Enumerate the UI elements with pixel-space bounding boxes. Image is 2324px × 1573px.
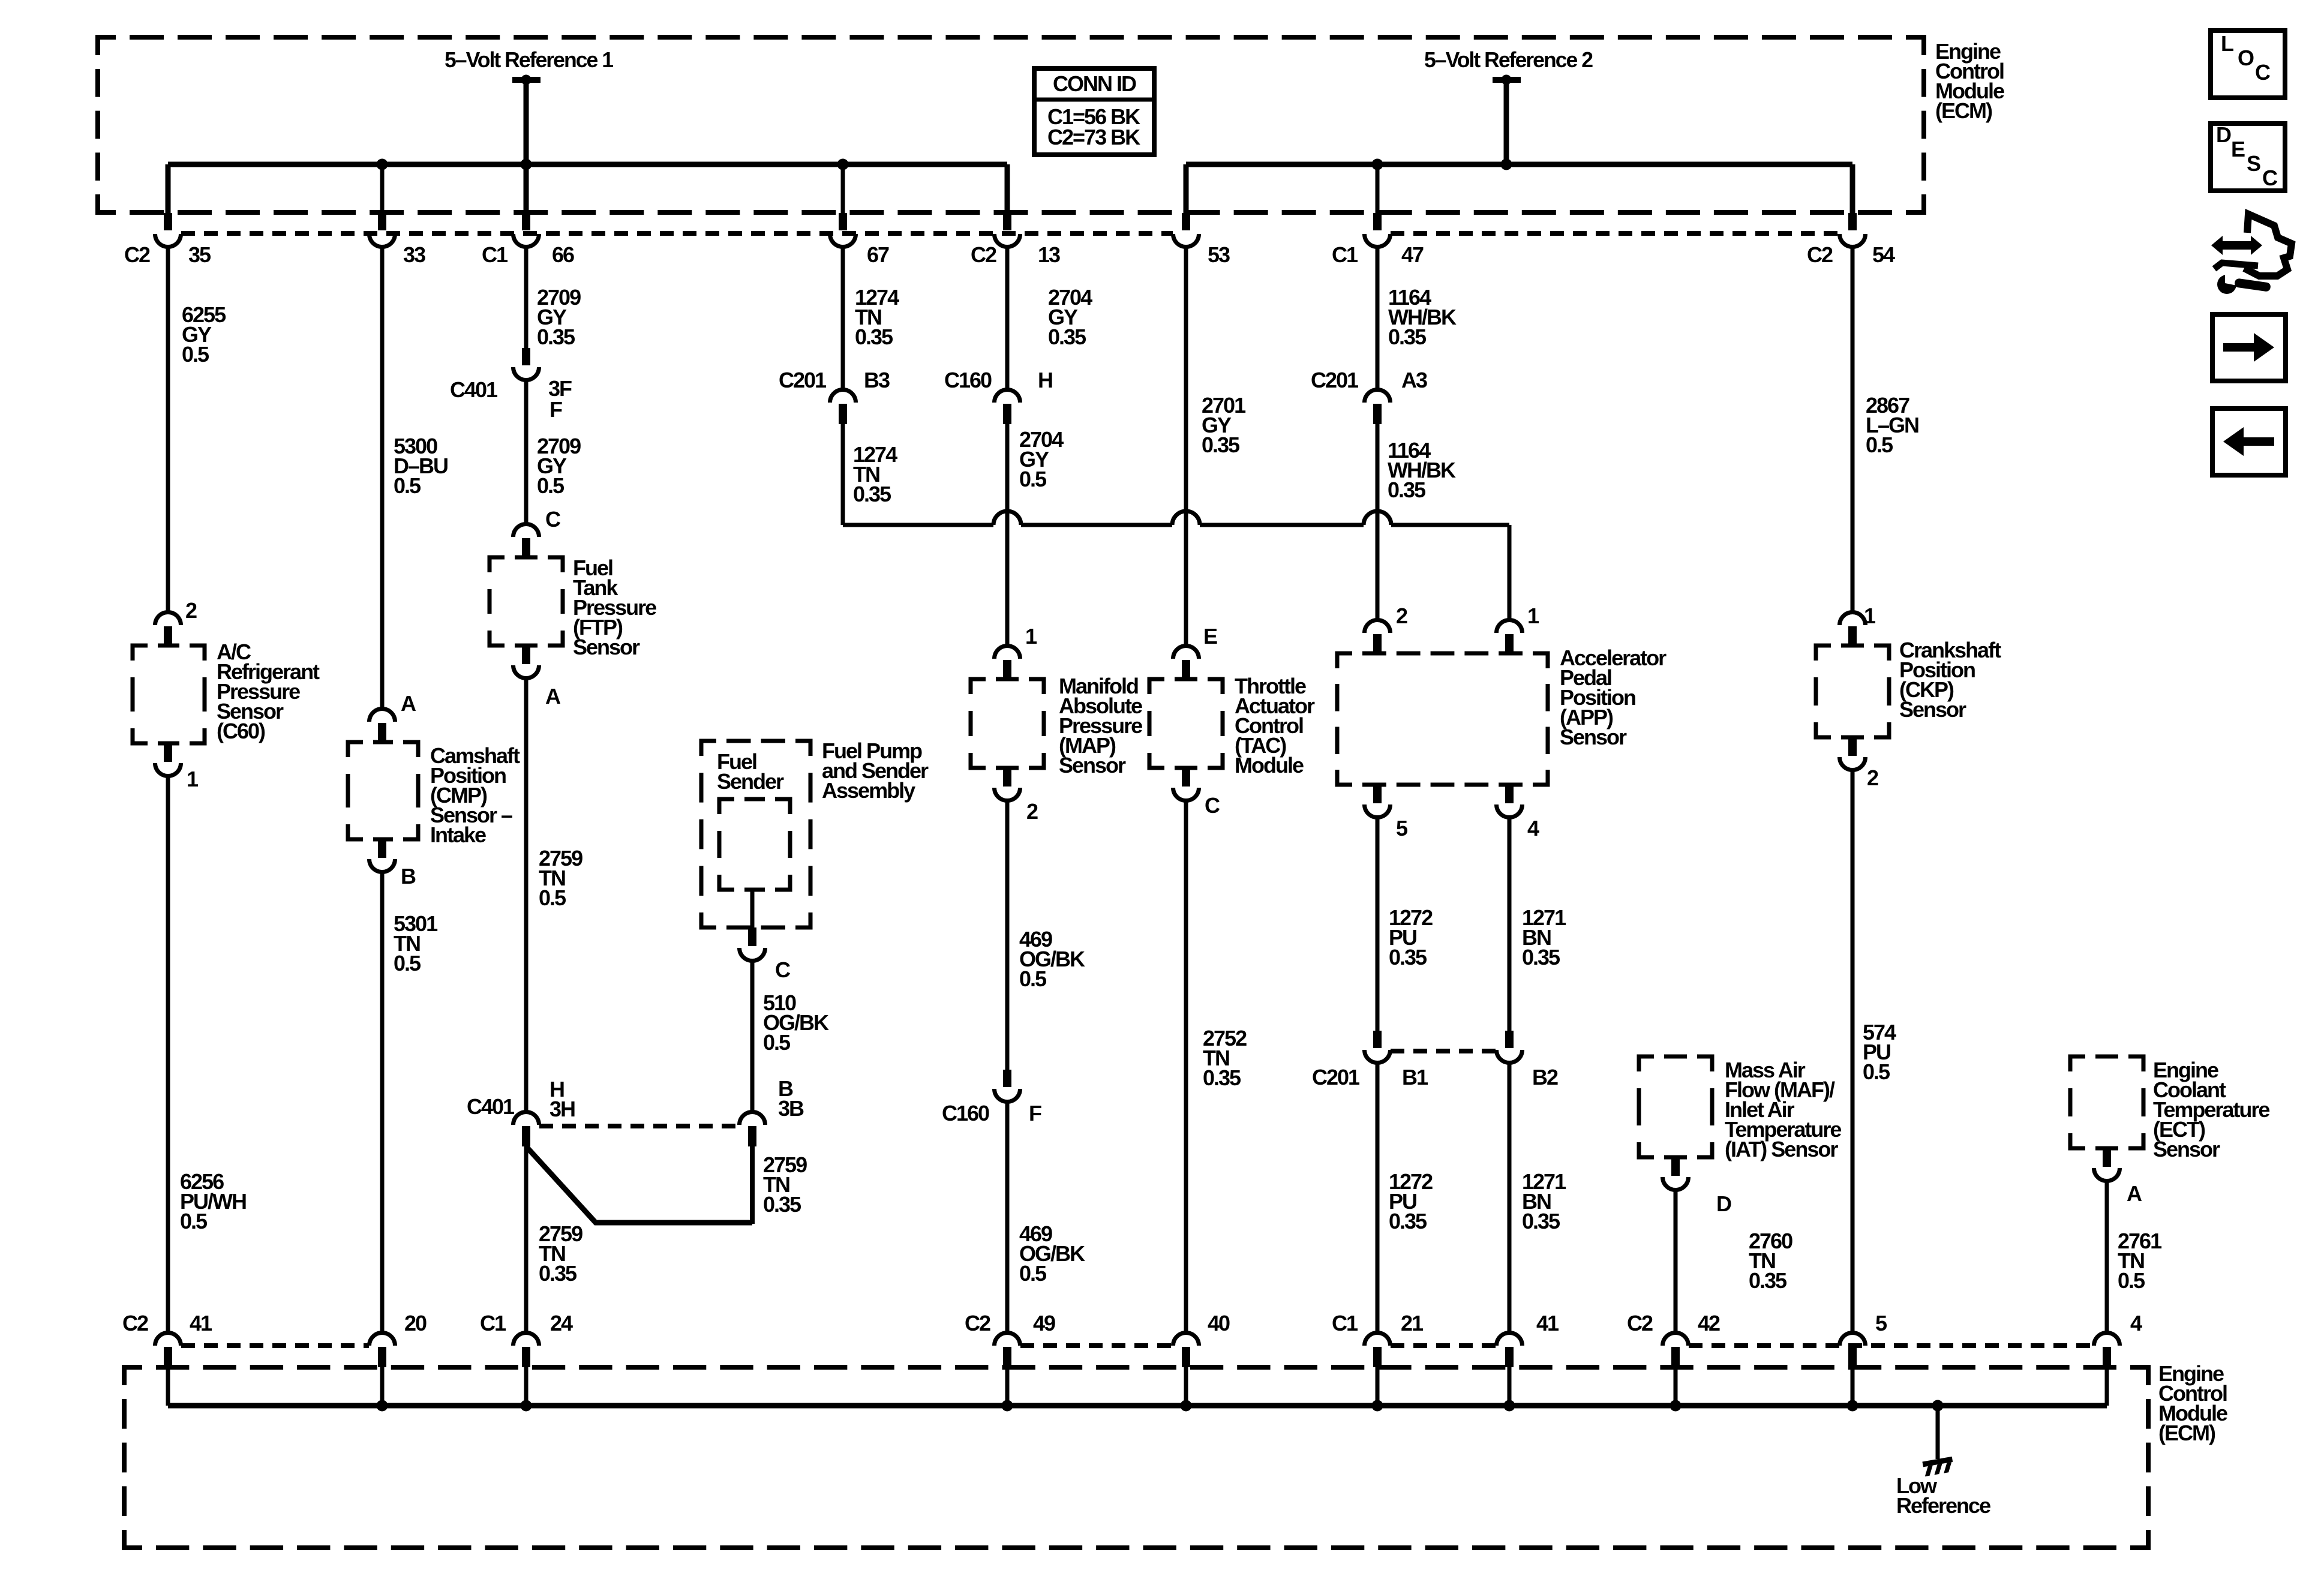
svg-text:53: 53 xyxy=(1208,242,1230,267)
svg-text:C2: C2 xyxy=(965,1311,990,1335)
svg-text:C1: C1 xyxy=(1332,1311,1358,1335)
svg-text:20: 20 xyxy=(404,1311,427,1335)
svg-text:L: L xyxy=(2221,31,2233,56)
svg-text:0.35: 0.35 xyxy=(853,482,891,506)
svg-text:2: 2 xyxy=(1396,604,1407,628)
svg-text:3B: 3B xyxy=(778,1096,804,1121)
svg-text:49: 49 xyxy=(1033,1311,1055,1335)
svg-text:0.5: 0.5 xyxy=(1866,433,1893,457)
svg-text:2: 2 xyxy=(185,598,197,623)
svg-text:C2: C2 xyxy=(1807,242,1833,267)
svg-text:1: 1 xyxy=(1025,624,1037,649)
svg-text:1: 1 xyxy=(1527,604,1539,628)
svg-text:CONN ID: CONN ID xyxy=(1053,71,1136,96)
svg-text:B1: B1 xyxy=(1402,1065,1428,1089)
svg-text:Sensor: Sensor xyxy=(573,635,640,659)
svg-text:0.35: 0.35 xyxy=(1388,325,1427,349)
svg-text:41: 41 xyxy=(1536,1311,1559,1335)
svg-text:1: 1 xyxy=(187,767,199,791)
svg-text:C1: C1 xyxy=(482,242,508,267)
svg-text:A: A xyxy=(545,684,561,709)
svg-text:0.35: 0.35 xyxy=(1202,433,1240,457)
svg-text:0.35: 0.35 xyxy=(1388,478,1426,502)
svg-text:C401: C401 xyxy=(450,377,498,402)
svg-text:4: 4 xyxy=(2130,1311,2142,1335)
svg-text:C201: C201 xyxy=(1312,1065,1360,1089)
svg-text:0.35: 0.35 xyxy=(1522,1209,1560,1233)
svg-text:(IAT) Sensor: (IAT) Sensor xyxy=(1725,1137,1838,1161)
svg-text:A3: A3 xyxy=(1401,368,1427,392)
svg-text:C2=73 BK: C2=73 BK xyxy=(1047,125,1140,149)
svg-text:0.5: 0.5 xyxy=(537,473,565,498)
svg-text:0.35: 0.35 xyxy=(1203,1065,1241,1090)
svg-text:0.35: 0.35 xyxy=(537,325,575,349)
svg-text:(ECM): (ECM) xyxy=(1935,98,1992,123)
svg-text:5–Volt Reference 2: 5–Volt Reference 2 xyxy=(1424,47,1593,72)
svg-text:0.5: 0.5 xyxy=(180,1209,208,1233)
svg-text:4: 4 xyxy=(1527,816,1539,840)
svg-text:0.5: 0.5 xyxy=(1863,1059,1890,1084)
svg-text:Sensor: Sensor xyxy=(1899,697,1966,722)
svg-text:C201: C201 xyxy=(1311,368,1359,392)
svg-text:E: E xyxy=(1203,624,1217,649)
svg-text:1: 1 xyxy=(1864,604,1876,628)
svg-text:C: C xyxy=(2255,60,2271,85)
svg-text:33: 33 xyxy=(403,242,425,267)
svg-text:0.35: 0.35 xyxy=(1749,1268,1787,1293)
svg-text:67: 67 xyxy=(867,242,889,267)
svg-text:C2: C2 xyxy=(122,1311,148,1335)
svg-text:Intake: Intake xyxy=(430,822,486,847)
svg-text:0.5: 0.5 xyxy=(394,473,421,498)
svg-text:0.5: 0.5 xyxy=(394,951,421,975)
svg-text:0.35: 0.35 xyxy=(855,325,893,349)
svg-text:0.35: 0.35 xyxy=(763,1192,801,1217)
svg-text:5: 5 xyxy=(1875,1311,1887,1335)
svg-text:0.5: 0.5 xyxy=(539,885,566,910)
svg-text:0.5: 0.5 xyxy=(182,342,209,367)
svg-text:Reference: Reference xyxy=(1896,1493,1990,1518)
svg-text:Sensor: Sensor xyxy=(1059,753,1126,778)
svg-text:O: O xyxy=(2238,46,2254,70)
svg-text:A: A xyxy=(2127,1181,2142,1206)
svg-text:66: 66 xyxy=(552,242,574,267)
svg-text:C2: C2 xyxy=(971,242,996,267)
svg-text:C: C xyxy=(2262,166,2278,190)
svg-text:5–Volt Reference 1: 5–Volt Reference 1 xyxy=(445,47,614,72)
svg-text:24: 24 xyxy=(550,1311,573,1335)
svg-text:B: B xyxy=(401,864,416,888)
svg-text:C2: C2 xyxy=(1627,1311,1653,1335)
svg-text:0.35: 0.35 xyxy=(1389,945,1427,969)
svg-text:C2: C2 xyxy=(124,242,150,267)
svg-text:C201: C201 xyxy=(779,368,827,392)
svg-text:0.5: 0.5 xyxy=(1019,467,1047,491)
svg-text:13: 13 xyxy=(1038,242,1060,267)
svg-text:S: S xyxy=(2247,151,2260,176)
svg-text:0.5: 0.5 xyxy=(2118,1268,2145,1293)
svg-text:0.35: 0.35 xyxy=(1389,1209,1427,1233)
svg-text:Sender: Sender xyxy=(717,769,784,794)
svg-text:C1: C1 xyxy=(480,1311,506,1335)
svg-text:2: 2 xyxy=(1026,799,1038,824)
svg-text:C: C xyxy=(545,507,561,532)
svg-text:0.5: 0.5 xyxy=(1019,1261,1047,1286)
svg-text:C160: C160 xyxy=(944,368,992,392)
svg-text:A: A xyxy=(401,691,416,716)
svg-text:C: C xyxy=(1205,793,1220,818)
svg-text:21: 21 xyxy=(1401,1311,1424,1335)
svg-text:(C60): (C60) xyxy=(217,719,265,743)
svg-text:B2: B2 xyxy=(1532,1065,1558,1089)
svg-text:F: F xyxy=(550,397,562,422)
svg-text:C160: C160 xyxy=(942,1101,989,1125)
svg-text:Sensor: Sensor xyxy=(2153,1137,2220,1161)
svg-text:Sensor: Sensor xyxy=(1560,725,1627,749)
svg-text:0.35: 0.35 xyxy=(539,1261,577,1286)
svg-text:35: 35 xyxy=(188,242,211,267)
svg-text:C1: C1 xyxy=(1332,242,1358,267)
svg-text:F: F xyxy=(1029,1101,1041,1125)
svg-text:2: 2 xyxy=(1867,766,1878,790)
svg-text:0.35: 0.35 xyxy=(1048,325,1086,349)
svg-text:B3: B3 xyxy=(864,368,890,392)
svg-text:H: H xyxy=(1038,368,1052,392)
svg-text:54: 54 xyxy=(1872,242,1895,267)
svg-text:E: E xyxy=(2231,137,2245,161)
svg-text:5: 5 xyxy=(1396,816,1408,840)
svg-text:3H: 3H xyxy=(550,1097,575,1121)
svg-text:Assembly: Assembly xyxy=(822,778,915,803)
svg-text:C401: C401 xyxy=(467,1094,515,1119)
svg-text:D: D xyxy=(2216,122,2231,147)
svg-text:42: 42 xyxy=(1698,1311,1720,1335)
svg-text:40: 40 xyxy=(1208,1311,1230,1335)
svg-text:C: C xyxy=(775,957,791,982)
svg-text:41: 41 xyxy=(190,1311,212,1335)
svg-text:Module: Module xyxy=(1235,753,1304,778)
svg-text:0.35: 0.35 xyxy=(1522,945,1560,969)
svg-text:0.5: 0.5 xyxy=(763,1030,791,1055)
svg-text:(ECM): (ECM) xyxy=(2158,1421,2215,1445)
svg-text:47: 47 xyxy=(1401,242,1424,267)
svg-text:D: D xyxy=(1716,1191,1731,1216)
svg-text:0.5: 0.5 xyxy=(1019,966,1047,991)
